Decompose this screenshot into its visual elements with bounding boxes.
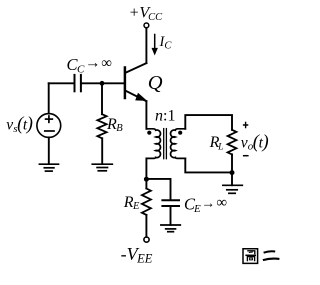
wire node E to CE xyxy=(146,179,170,199)
ground (RB) xyxy=(92,164,112,171)
node out junction xyxy=(230,170,235,175)
transistor Q xyxy=(125,63,147,101)
node E junction xyxy=(144,177,149,182)
ground (CE) xyxy=(161,225,180,232)
wire to ground (out) xyxy=(231,173,233,186)
label - (output) xyxy=(243,155,249,157)
label 圖二 (drawn) xyxy=(243,249,279,264)
power terminal -VEE xyxy=(144,237,149,242)
secondary polarity dot xyxy=(178,131,182,135)
resistor RL xyxy=(228,130,237,155)
svg-text:IC: IC xyxy=(159,34,173,52)
wire secondary top to RL loop xyxy=(185,115,232,130)
svg-text:Q: Q xyxy=(148,72,163,94)
wire node E down to RE xyxy=(145,179,147,188)
secondary winding xyxy=(171,129,186,159)
wire vs to CC xyxy=(48,83,50,113)
wire node B down xyxy=(101,83,103,114)
resistor RE xyxy=(142,189,151,215)
current arrow IC xyxy=(152,35,158,56)
base bar xyxy=(124,68,127,99)
source vs xyxy=(37,114,61,138)
wire vs to ground xyxy=(48,137,50,163)
wire emitter vertical xyxy=(145,101,147,129)
resistor RB xyxy=(97,114,106,138)
svg-text:RL: RL xyxy=(209,134,224,152)
svg-text:+VCC: +VCC xyxy=(129,5,164,23)
wire RE to -VEE xyxy=(145,215,147,237)
ground (vs) xyxy=(39,164,58,171)
collector diagonal xyxy=(126,63,147,73)
node B junction xyxy=(100,81,105,86)
transformer T1 xyxy=(146,129,185,159)
wire RB to ground xyxy=(101,138,103,164)
capacitor CC xyxy=(49,75,81,91)
wire base horizontal xyxy=(82,82,124,84)
svg-text:-VEE: -VEE xyxy=(121,244,153,266)
wire primary bottom to node E xyxy=(145,158,147,179)
wire CE to ground xyxy=(170,206,172,225)
svg-text:RB: RB xyxy=(106,116,123,134)
svg-text:RE: RE xyxy=(123,194,140,212)
wire RL bottom xyxy=(231,154,233,172)
capacitor CE xyxy=(162,200,179,206)
svg-text:n:1: n:1 xyxy=(155,108,175,125)
wire secondary bottom to RL xyxy=(185,158,232,172)
svg-text:CE→∞: CE→∞ xyxy=(184,194,227,215)
power terminal +VCC xyxy=(144,23,149,28)
core xyxy=(163,129,165,159)
wire collector vertical xyxy=(145,28,147,63)
ground (out) xyxy=(223,185,242,193)
label + (output) xyxy=(243,122,248,129)
emitter diagonal xyxy=(126,91,147,102)
svg-text:vo(t): vo(t) xyxy=(241,133,269,153)
primary polarity dot xyxy=(147,131,151,135)
primary winding xyxy=(146,129,160,159)
svg-text:vs(t): vs(t) xyxy=(6,115,33,135)
svg-text:CC→∞: CC→∞ xyxy=(67,55,112,76)
emitter arrowhead xyxy=(135,93,147,101)
